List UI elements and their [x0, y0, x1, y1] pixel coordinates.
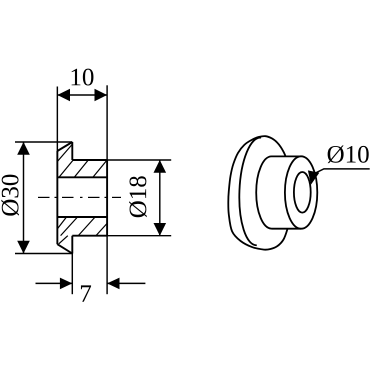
extension line bottom of diam18: [107, 235, 171, 237]
barrel rear junction ellipse: [256, 156, 287, 228]
flange right edge top: [71, 142, 73, 160]
hatch line upper flange: [57, 144, 72, 161]
dimension text diam10: [328, 146, 369, 164]
leader arrowhead: [308, 170, 319, 184]
extension line right of 10 dim: [106, 85, 108, 160]
arrow diam18 top: [154, 160, 167, 173]
dimension text 10: [72, 69, 94, 86]
hatch line lower 2: [61, 217, 78, 236]
extension line left of 10 dim: [56, 87, 58, 153]
arrow diam18 bottom: [154, 223, 167, 236]
barrel silhouette bottom: [272, 228, 302, 230]
bore bottom: [57, 216, 107, 218]
centerline dot 1: [55, 196, 58, 198]
extension line right lower (7 dim right): [106, 236, 108, 295]
arrow 7 left (points right): [60, 278, 72, 290]
barrel top edge: [72, 159, 107, 161]
dimension line diam30: [23, 142, 25, 254]
centerline dash 1: [38, 196, 50, 198]
hatch line upper 1: [59, 160, 73, 177]
centerline dot 3: [105, 196, 108, 198]
hatch line lower 4: [96, 223, 107, 235]
barrel bottom edge: [72, 235, 107, 237]
centerline dash 2: [62, 196, 74, 198]
dimension text diam30: [1, 175, 19, 216]
bore top: [57, 176, 107, 178]
dimension line diam18: [159, 160, 161, 236]
bore ellipse: [294, 172, 311, 213]
centerline dot 2: [80, 196, 83, 198]
arrow 7 right (points left): [107, 278, 119, 290]
hatch line upper 2: [74, 160, 88, 177]
back face arc A: [237, 137, 261, 246]
barrel body mask: [272, 156, 302, 230]
front face ellipse: [285, 156, 317, 228]
top taper: [57, 142, 72, 151]
arrow diam30 bottom: [17, 241, 30, 254]
left face: [56, 151, 58, 244]
arrow 10 left: [57, 89, 70, 102]
hatch line lower 1: [57, 217, 66, 229]
flange ellipse B: [228, 136, 293, 250]
dimension text 7: [81, 285, 91, 301]
part outline (thick): [57, 142, 107, 254]
dimension text diam18: [129, 176, 147, 217]
extension line bottom of diam30: [15, 253, 72, 255]
dimension line 10: [57, 94, 107, 96]
extension line top of diam18: [107, 159, 171, 161]
dimension line 7 left tail: [36, 282, 73, 284]
barrel right edge: [106, 160, 108, 236]
flange right edge bottom: [71, 236, 73, 254]
hatch line upper 3: [93, 160, 107, 177]
dimension line 7 right tail: [107, 282, 145, 284]
arrow 10 right: [95, 89, 108, 102]
centerline dash 4: [112, 196, 121, 198]
extension line top of diam30: [15, 141, 72, 143]
arrowheads: [17, 89, 166, 290]
barrel silhouette top: [272, 155, 302, 157]
hatch line lower flange: [59, 236, 68, 244]
centerline dash 3: [88, 196, 100, 198]
hatch line lower 3: [78, 217, 95, 236]
bottom taper: [57, 244, 72, 253]
extension line 7 dim left: [71, 254, 73, 295]
leader line diam10: [314, 169, 370, 174]
arrow diam30 top: [17, 142, 30, 155]
